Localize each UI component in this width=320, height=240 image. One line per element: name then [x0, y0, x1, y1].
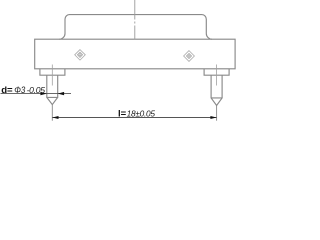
svg-text:d=: d= [1, 85, 13, 96]
left pin cone [46, 97, 58, 104]
right pin shaft [211, 75, 222, 98]
dimension d left arrowhead [40, 92, 46, 95]
diamond mark right [184, 51, 195, 62]
right pin collar [204, 69, 229, 75]
left pin centerline [51, 65, 53, 86]
vertical centerline of part [134, 0, 136, 39]
left pin collar [40, 69, 65, 75]
body rectangle [35, 39, 235, 69]
cap (top hat) outline [59, 15, 212, 40]
right pin centerline [216, 65, 218, 86]
dimension d leader line with underline [1, 93, 72, 95]
right pin cone [211, 98, 223, 106]
dimension d right arrowhead [58, 92, 64, 95]
svg-text:Φ3: Φ3 [14, 85, 25, 96]
left pin extension line [51, 105, 53, 121]
right pin extension line [216, 106, 218, 121]
dimension l line [52, 117, 216, 119]
dimension l left arrowhead [52, 116, 58, 119]
svg-text:18±0.05: 18±0.05 [127, 109, 156, 119]
diamond mark left [75, 50, 86, 61]
dimension l right arrowhead [210, 116, 216, 119]
svg-text:-0.05: -0.05 [27, 85, 46, 95]
left pin shaft [47, 75, 58, 97]
svg-text:l=: l= [118, 109, 127, 120]
